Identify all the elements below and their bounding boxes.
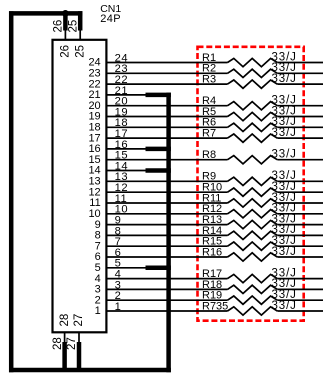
svg-text:25: 25 <box>74 45 86 58</box>
svg-text:26: 26 <box>53 20 65 33</box>
node label pin 21 (net number above wire) <box>115 85 128 97</box>
pin 28 number label (outside bottom) <box>52 337 64 350</box>
svg-text:R7: R7 <box>202 128 216 140</box>
node label pin 4 (net number above wire) <box>115 269 122 281</box>
svg-text:R3: R3 <box>202 74 216 86</box>
wire pin 22 to resistor R3 <box>107 83 227 85</box>
pin 1 number label (inside connector) <box>95 305 101 317</box>
resistor R9 <box>202 170 297 185</box>
svg-text:28: 28 <box>59 314 71 327</box>
wire pin 15 to resistor R8 <box>107 159 227 161</box>
wire thick bottom horizontal rail <box>9 368 171 373</box>
wire resistor R8 output to right edge <box>277 159 323 161</box>
svg-text:33/J: 33/J <box>272 73 297 85</box>
pin 21 number label (inside connector) <box>88 89 100 101</box>
resistor R17 <box>202 267 297 282</box>
wire pin 2 to resistor R19 <box>107 299 227 301</box>
resistor R1 <box>202 51 297 66</box>
wire resistor R19 output to right edge <box>277 299 323 301</box>
node label pin 5 (net number above wire) <box>115 258 122 270</box>
resistor R2 <box>202 62 297 77</box>
wire pin 19 to resistor R5 <box>107 116 227 118</box>
wire pin 23 to resistor R2 <box>107 72 227 74</box>
resistor R11 <box>202 192 297 207</box>
wire pin 4 to resistor R17 <box>107 278 227 280</box>
wire pin 8 to resistor R14 <box>107 234 227 236</box>
pin 26 wire (top, thick + thin lead) <box>63 11 68 40</box>
node label pin 3 (net number above wire) <box>115 279 122 291</box>
wire thick vertical bus (pins 21/16/14/5 to bottom rail) <box>166 93 171 373</box>
connector CN1 reference label <box>100 3 121 15</box>
pin 10 number label (inside connector) <box>88 208 100 220</box>
pin 20 number label (inside connector) <box>88 100 100 112</box>
wire thick left vertical rail <box>9 11 14 372</box>
node label pin 20 (net number above wire) <box>115 96 128 108</box>
pin 26 number label (inside connector) <box>60 45 72 58</box>
pin 13 number label (inside connector) <box>88 176 100 188</box>
pin 6 number label (inside connector) <box>95 251 101 263</box>
svg-text:R8: R8 <box>202 149 216 161</box>
svg-text:33/J: 33/J <box>272 300 297 312</box>
wire resistor R735 output to right edge <box>277 310 323 312</box>
wire resistor R16 output to right edge <box>277 256 323 258</box>
wire resistor R13 output to right edge <box>277 224 323 226</box>
pin 18 number label (inside connector) <box>88 122 100 134</box>
wire resistor R11 output to right edge <box>277 202 323 204</box>
wire resistor R6 output to right edge <box>277 126 323 128</box>
node label pin 6 (net number above wire) <box>115 247 122 259</box>
wire pin 21 to bus <box>107 94 170 96</box>
node label pin 9 (net number above wire) <box>115 215 122 227</box>
wire resistor R15 output to right edge <box>277 245 323 247</box>
resistor R5 <box>202 105 297 120</box>
wire pin 24 to resistor R1 <box>107 62 227 64</box>
wire pin 17 to resistor R7 <box>107 137 227 139</box>
wire resistor R14 output to right edge <box>277 234 323 236</box>
node label pin 24 (net number above wire) <box>115 52 128 64</box>
wire pin 14 to bus <box>107 170 170 172</box>
resistor R19 <box>202 289 297 304</box>
resistor R3 <box>202 73 297 88</box>
node label pin 2 (net number above wire) <box>115 290 122 302</box>
pin 27 number label (outside bottom) <box>66 337 78 350</box>
pin 12 number label (inside connector) <box>88 186 100 198</box>
resistor R18 <box>202 278 297 293</box>
node label pin 10 (net number above wire) <box>115 204 128 216</box>
resistor R8 <box>202 149 297 164</box>
pin 24 number label (inside connector) <box>88 57 100 69</box>
pin 5 number label (inside connector) <box>95 262 101 274</box>
pin 28 number label (inside connector) <box>59 314 71 327</box>
resistor R6 <box>202 116 297 131</box>
wire pin 3 to resistor R18 <box>107 288 227 290</box>
node label pin 22 (net number above wire) <box>115 74 128 86</box>
pin 9 number label (inside connector) <box>95 219 101 231</box>
wire resistor R10 output to right edge <box>277 191 323 193</box>
wire resistor R12 output to right edge <box>277 213 323 215</box>
wire pin 13 to resistor R9 <box>107 180 227 182</box>
wire pin 10 to resistor R12 <box>107 213 227 215</box>
resistor R16 <box>202 246 297 261</box>
pin 17 number label (inside connector) <box>88 132 100 144</box>
wire resistor R1 output to right edge <box>277 62 323 64</box>
resistor R735 <box>202 300 297 315</box>
wire pin 11 to resistor R11 <box>107 202 227 204</box>
pin 15 number label (inside connector) <box>88 154 100 166</box>
wire pin 16 to bus <box>107 148 170 150</box>
pin 28 wire (bottom, thin lead + thick) <box>64 332 66 372</box>
node label pin 13 (net number above wire) <box>115 171 128 183</box>
pin 27 wire (bottom, thin lead + thick) <box>78 332 80 372</box>
node label pin 19 (net number above wire) <box>115 106 128 118</box>
wire pin 9 to resistor R13 <box>107 224 227 226</box>
svg-text:33/J: 33/J <box>272 149 297 161</box>
pin 8 number label (inside connector) <box>95 230 101 242</box>
pin 22 number label (inside connector) <box>88 78 100 90</box>
node label pin 1 (net number above wire) <box>115 301 122 313</box>
node label pin 12 (net number above wire) <box>115 182 128 194</box>
connector CN1 body <box>53 40 107 333</box>
pin 3 number label (inside connector) <box>95 284 101 296</box>
node label pin 15 (net number above wire) <box>115 150 128 162</box>
svg-text:R16: R16 <box>202 246 222 258</box>
pin 16 number label (inside connector) <box>88 143 100 155</box>
svg-text:R735: R735 <box>202 300 228 312</box>
node label pin 18 (net number above wire) <box>115 117 128 129</box>
connector CN1 value label 24P <box>100 13 121 25</box>
pin 25 wire (top, thick + thin lead) <box>78 11 83 40</box>
svg-text:25: 25 <box>67 20 79 33</box>
svg-text:33/J: 33/J <box>272 127 297 139</box>
resistor R14 <box>202 224 297 239</box>
svg-text:1: 1 <box>95 305 101 317</box>
wire pin 12 to resistor R10 <box>107 191 227 193</box>
pin 26 number label (outside top) <box>53 20 65 33</box>
svg-text:24P: 24P <box>100 13 121 25</box>
pin 23 number label (inside connector) <box>88 68 100 80</box>
pin 4 number label (inside connector) <box>95 273 101 285</box>
pin 11 number label (inside connector) <box>89 197 100 209</box>
node label pin 14 (net number above wire) <box>115 160 128 172</box>
node label pin 8 (net number above wire) <box>115 225 122 237</box>
pin 7 number label (inside connector) <box>95 240 101 252</box>
resistor group boundary (red dashed box) <box>198 47 304 321</box>
wire resistor R4 output to right edge <box>277 105 323 107</box>
node label pin 16 (net number above wire) <box>115 139 128 151</box>
svg-text:33/J: 33/J <box>272 246 297 258</box>
wire resistor R17 output to right edge <box>277 278 323 280</box>
junction dot pin 26 / top rail <box>62 10 69 17</box>
node label pin 17 (net number above wire) <box>115 128 128 140</box>
resistor R7 <box>202 127 297 142</box>
wire pin 1 to resistor R735 <box>107 310 227 312</box>
resistor R15 <box>202 235 297 250</box>
wire resistor R5 output to right edge <box>277 116 323 118</box>
resistor R4 <box>202 95 297 110</box>
pin 19 number label (inside connector) <box>88 111 100 123</box>
wire pin 5 to bus <box>107 267 170 269</box>
wire pin 20 to resistor R4 <box>107 105 227 107</box>
node label pin 7 (net number above wire) <box>115 236 122 248</box>
resistor R12 <box>202 203 297 218</box>
svg-text:28: 28 <box>52 337 64 350</box>
wire thick top horizontal (pins 26/25 to left rail) <box>9 11 82 16</box>
node label pin 23 (net number above wire) <box>115 63 128 75</box>
svg-text:27: 27 <box>73 314 85 327</box>
pin 25 number label (outside top) <box>67 20 79 33</box>
wire resistor R2 output to right edge <box>277 72 323 74</box>
wire pin 6 to resistor R16 <box>107 256 227 258</box>
pin 14 number label (inside connector) <box>88 165 100 177</box>
pin 2 number label (inside connector) <box>95 294 101 306</box>
wire resistor R18 output to right edge <box>277 288 323 290</box>
svg-text:27: 27 <box>66 337 78 350</box>
resistor R10 <box>202 181 297 196</box>
wire resistor R7 output to right edge <box>277 137 323 139</box>
resistor R13 <box>202 213 297 228</box>
wire pin 18 to resistor R6 <box>107 126 227 128</box>
wire resistor R3 output to right edge <box>277 83 323 85</box>
svg-text:26: 26 <box>60 45 72 58</box>
node label pin 11 (net number above wire) <box>115 193 128 205</box>
pin 25 number label (inside connector) <box>74 45 86 58</box>
wire resistor R9 output to right edge <box>277 180 323 182</box>
pin 27 number label (inside connector) <box>73 314 85 327</box>
wire pin 7 to resistor R15 <box>107 245 227 247</box>
